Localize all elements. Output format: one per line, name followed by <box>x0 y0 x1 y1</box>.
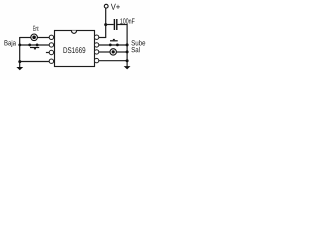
IC U1 DS1669 body <box>55 31 95 67</box>
wire: ground bus to Ent jack (y=37.3) <box>20 37 31 39</box>
node: junction dot pin 4 wire / ground bus <box>126 59 129 62</box>
label Ent <box>33 26 38 31</box>
wire: right ground bus vertical <box>126 24 128 66</box>
switch S2 Sube actuator stem <box>113 39 115 40</box>
wire: ground bus to IC pin 4 (bottom left) <box>20 61 50 63</box>
terminal V+ open circle <box>104 4 108 8</box>
wire: left ground bus vertical <box>19 37 21 67</box>
wire: IC right pin 1 to V+ riser <box>99 37 107 39</box>
IC pin circle right 2 <box>94 43 98 47</box>
node: junction dot bottom wire / ground bus <box>18 60 21 63</box>
node: junction dot Baja wire / ground bus <box>18 44 21 47</box>
connector J2 Sal jack outer shield <box>110 49 116 55</box>
wire: IC right pin 3 to Sal jack <box>99 51 111 53</box>
node: junction dot V+ / capacitor <box>104 23 107 26</box>
label Baja <box>4 40 16 47</box>
wire: junction to capacitor left plate <box>106 24 114 26</box>
wire: IC right pin 4 to ground bus <box>99 60 128 62</box>
wire: Ent jack to IC pin 1 <box>37 37 49 39</box>
node: junction dot Sal wire / ground bus <box>126 50 129 53</box>
connector J1 Ent jack outer shield <box>31 34 38 41</box>
capacitor C1 left plate <box>114 19 115 30</box>
IC U1 label DS1669 <box>64 47 86 53</box>
switch S2 Sube contact left <box>109 44 112 47</box>
capacitor C1 right plate <box>116 19 117 30</box>
switch S1 Baja contact right <box>36 44 39 47</box>
IC pin circle right 3 <box>94 50 98 54</box>
switch S1 Baja actuator bar <box>30 47 39 48</box>
label V+ <box>111 4 120 10</box>
switch S2 Sube actuator bar <box>110 40 118 41</box>
wire: Baja button wire to IC pin 2 <box>20 44 50 46</box>
IC pin circle right 4 <box>94 58 98 62</box>
ground: left ground triangle <box>16 67 23 70</box>
switch S1 Baja contact left <box>28 44 31 47</box>
connector J1 Ent jack center pin <box>32 36 36 40</box>
wire: capacitor right plate to right ground bus <box>117 24 127 26</box>
connector J2 Sal jack center pin <box>112 50 115 53</box>
node: junction dot Sube wire / ground bus <box>126 43 129 46</box>
label 100nF <box>120 18 134 23</box>
switch S2 Sube contact right <box>116 44 119 47</box>
ground: right ground triangle <box>124 66 131 69</box>
IC pin circle left 2 <box>49 43 53 47</box>
wire: IC pin 3 stub <box>46 52 50 54</box>
IC pin circle left 1 <box>49 35 53 39</box>
wire: IC right pin 2 Sube wire <box>99 44 128 46</box>
label Sal <box>131 47 139 52</box>
IC pin circle left 4 <box>49 59 53 63</box>
switch S1 Baja actuator stem <box>34 48 36 49</box>
wire: Sal jack to ground bus <box>116 51 127 53</box>
IC pin circle right 1 <box>94 35 98 39</box>
label Sube <box>131 40 145 45</box>
IC U1 pin-1 notch <box>71 31 76 34</box>
IC pin circle left 3 <box>49 50 53 54</box>
wire: V+ vertical drop to pin 1 wire <box>105 8 107 37</box>
